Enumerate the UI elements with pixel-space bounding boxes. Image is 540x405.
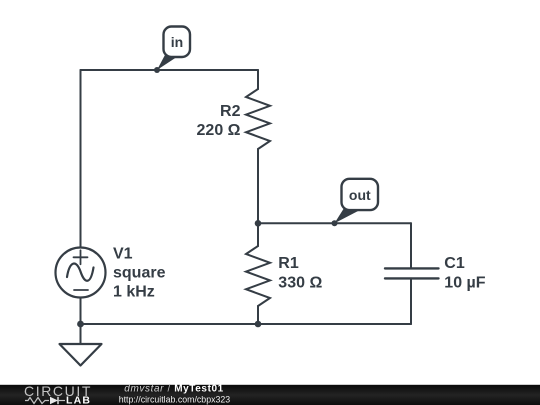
node dot out	[332, 220, 338, 226]
footer bar background	[0, 385, 540, 405]
footer logo resistor zigzag	[25, 398, 49, 404]
junction V1 bottom / ground	[77, 321, 84, 328]
resistor R1 zigzag	[246, 246, 270, 306]
wire C1 column bottom	[410, 278, 412, 324]
ground symbol	[60, 344, 102, 366]
wire left vertical from top corner down to V1 top	[80, 70, 82, 248]
label bubble out: tail	[335, 207, 361, 224]
footer logo diode	[50, 397, 58, 404]
node dot in	[154, 67, 160, 73]
wire R1 bottom stub	[257, 306, 259, 324]
voltage source V1 circle	[56, 248, 106, 298]
svg-text:square: square	[113, 265, 166, 282]
wire bottom horizontal	[81, 323, 412, 325]
svg-text:R1: R1	[278, 255, 299, 272]
wire top horizontal from left column to R2 column	[81, 69, 259, 71]
label bubble in: box	[164, 27, 191, 58]
svg-text:in: in	[171, 34, 183, 50]
svg-text:out: out	[349, 187, 371, 203]
wire C1 column top	[410, 223, 412, 268]
resistor R2 zigzag	[246, 89, 270, 149]
label bubble in: tail	[157, 53, 178, 70]
wire R2 bottom to mid node	[257, 149, 259, 223]
svg-text:10 µF: 10 µF	[444, 274, 485, 291]
junction R2/R1/out wire	[255, 220, 262, 227]
svg-text:C1: C1	[444, 255, 465, 272]
V1 plus sign	[74, 250, 88, 264]
svg-text:dmvstar / MyTest01: dmvstar / MyTest01	[124, 383, 224, 394]
svg-text:http://circuitlab.com/cbpx323: http://circuitlab.com/cbpx323	[119, 395, 231, 405]
V1 sine wave	[67, 264, 94, 281]
wire V1 bottom to ground	[80, 298, 82, 345]
wire mid horizontal from R1 node to C1 column	[258, 222, 411, 224]
wire R2 top stub	[257, 70, 259, 89]
svg-text:R2: R2	[220, 103, 241, 120]
svg-text:1 kHz: 1 kHz	[113, 284, 155, 301]
label bubble out: box	[342, 179, 379, 210]
svg-text:V1: V1	[113, 245, 133, 262]
wire R1 top stub	[257, 223, 259, 246]
V1 minus sign	[74, 289, 88, 291]
svg-text:LAB: LAB	[66, 395, 91, 405]
svg-text:330 Ω: 330 Ω	[278, 274, 322, 291]
junction R1 bottom	[255, 321, 262, 328]
capacitor C1 plates	[385, 268, 439, 278]
svg-text:220 Ω: 220 Ω	[197, 122, 241, 139]
